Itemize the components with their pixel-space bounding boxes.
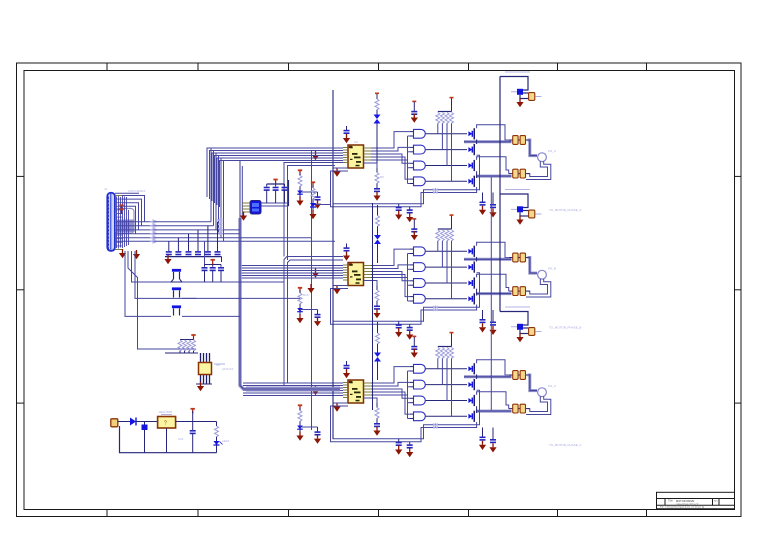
connector wire loop box (116, 209, 134, 234)
input connector J1 (107, 193, 122, 251)
long vertical trunk C (311, 150, 313, 430)
led D3 (214, 422, 223, 453)
svg-text:File: C:\design\drive\gate-dri: File: C:\design\drive\gate-driver.sch Dr… (660, 506, 705, 509)
title block text (660, 499, 719, 509)
dense wiring shade (116, 220, 135, 233)
svg-text:TO_MOTOR_PHASE_B: TO_MOTOR_PHASE_B (549, 326, 581, 330)
jumper JP3 (172, 305, 240, 316)
grounds under connector bus (133, 250, 140, 259)
channel1 input bundle staircase (207, 148, 343, 207)
series resistor glyph column (150, 218, 222, 243)
resistor array RN1 (165, 334, 198, 353)
long vertical trunk B (332, 90, 334, 439)
long vertical trunk A (372, 203, 374, 410)
feeder to mid trio (204, 241, 206, 264)
channel2 input bundle from trunk (242, 266, 343, 279)
bootstrap supply trunk (499, 77, 501, 312)
channel3 input bundle from trunk (246, 387, 340, 392)
svg-text:?: ? (164, 421, 167, 427)
net label texts (104, 140, 582, 447)
svg-text:LED1: LED1 (222, 439, 230, 443)
channel 3 driver stage (296, 307, 550, 457)
zone ticks top (107, 63, 647, 71)
phase return trunk (490, 177, 492, 410)
ground below connector (119, 249, 126, 258)
svg-text:ACS712: ACS712 (222, 367, 234, 371)
regulator U7 (158, 415, 217, 453)
channel 2 driver stage (296, 190, 550, 340)
svg-text:PH_B: PH_B (548, 267, 556, 271)
tvs column ch1 (374, 93, 381, 164)
connector dense wiring halo (117, 196, 129, 249)
svg-text:J1: J1 (104, 187, 108, 191)
jumper JP2 (172, 287, 300, 298)
svg-text:TO_MOTOR_PHASE_C: TO_MOTOR_PHASE_C (549, 443, 582, 447)
trunk branch ch3 with tvs (374, 322, 381, 380)
vcc cap trio mid-left (202, 259, 225, 282)
power supply input header (111, 419, 217, 453)
ground mid (307, 284, 314, 293)
sensor block U6 (196, 353, 225, 391)
svg-text:C21: C21 (178, 437, 184, 441)
optocoupler U5 (240, 201, 289, 221)
svg-text:U6: U6 (216, 363, 220, 367)
svg-text:gate-driver-3ph.sch: gate-driver-3ph.sch (676, 502, 699, 506)
svg-text:PH_C: PH_C (548, 384, 557, 388)
zone ticks bottom (107, 510, 647, 517)
svg-text:TO_MOTOR_PHASE_A: TO_MOTOR_PHASE_A (549, 208, 581, 212)
svg-text:PH_A: PH_A (548, 149, 556, 153)
output cap C20 (190, 408, 196, 453)
svg-text:R9: R9 (380, 175, 384, 179)
sheet border outer (17, 63, 742, 517)
left drop verticals (125, 251, 197, 349)
jumper JP1 (171, 269, 284, 282)
svg-text:U2: U2 (354, 140, 358, 144)
svg-text:R15: R15 (303, 293, 309, 297)
title block (657, 492, 735, 509)
svg-text:Title: Title (668, 499, 673, 503)
main input bus bundle (116, 222, 335, 242)
input diode D1 (130, 418, 158, 426)
pull-down cap row (164, 222, 221, 265)
vertical trunk at 288 (288, 180, 290, 206)
sheet border inner (24, 71, 735, 510)
opto vcc caps trio (264, 179, 288, 203)
trunk branch ch2 with tvs (374, 205, 381, 263)
svg-text:Rev: Rev (714, 501, 719, 503)
channel1 staircase risers (211, 148, 343, 241)
svg-text:REG7805: REG7805 (159, 410, 173, 414)
channel 1 driver stage (296, 72, 550, 222)
vcc flags at connector (119, 204, 123, 210)
zener D2 (142, 422, 148, 453)
svg-text:CON HDR16: CON HDR16 (128, 189, 146, 193)
main left bus trunk thick (240, 160, 340, 389)
zone ticks left and right (17, 176, 742, 403)
resistor diode string right of opto (309, 181, 330, 219)
connector upper wires nested elbows (115, 193, 145, 233)
bus riser to channel2 (284, 163, 343, 386)
